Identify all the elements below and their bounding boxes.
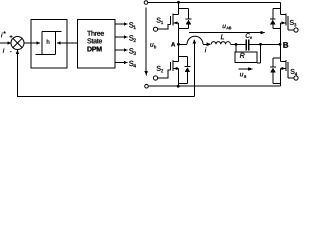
wire feedback from summer to current sensor — [18, 50, 195, 97]
node S4 output label — [129, 61, 136, 68]
diode D2 — [179, 57, 191, 84]
wire load left connector — [235, 44, 237, 52]
DPM block U1 — [78, 20, 116, 69]
node S2 output label — [129, 35, 136, 42]
node i feedback label — [3, 48, 4, 53]
node u_AB label — [223, 25, 232, 30]
node A junction — [177, 43, 180, 46]
transistor Q3 top-right MOSFET — [281, 2, 294, 44]
terminal gate S4 — [294, 76, 298, 80]
wire current arrowhead i — [207, 43, 212, 47]
voltage arrow u_a — [238, 67, 253, 70]
wire arrowhead into summer — [7, 41, 11, 44]
minus sign — [10, 0, 11, 103]
wire hysteresis to DPM — [67, 42, 78, 44]
node B junction — [279, 43, 282, 46]
terminal source plus — [144, 1, 148, 5]
node junction load left — [235, 43, 238, 46]
node S1 output label — [129, 22, 136, 29]
node S1 gate label — [157, 18, 163, 24]
transistor Q2 bottom-left MOSFET — [158, 44, 179, 86]
terminal gate S2 — [153, 76, 157, 80]
inductor L — [211, 42, 230, 45]
node i current label — [205, 47, 206, 52]
voltage arrow u_AB — [189, 31, 266, 34]
wire capacitor to node B — [249, 43, 281, 45]
node junction load right — [259, 43, 262, 46]
node S3 output label — [129, 48, 136, 55]
voltage arrow u_b — [145, 8, 148, 77]
wire feedback arrowhead into summer — [16, 50, 19, 54]
node S4 gate label — [291, 69, 298, 75]
hysteresis relay symbol — [32, 32, 68, 55]
wire node A to hop — [179, 43, 188, 45]
resistor R load box — [235, 52, 257, 63]
wire hop to inductor — [203, 43, 208, 45]
wire current sensor tap — [193, 40, 195, 97]
wire inductor to capacitor — [230, 43, 245, 45]
transistor Q4 bottom-right MOSFET — [281, 44, 294, 86]
wire crossover hop — [187, 36, 203, 44]
wire sensor arrowhead up — [193, 39, 196, 43]
wire summer to hysteresis block — [24, 42, 31, 44]
diode D3 — [270, 9, 281, 29]
hysteresis block H1 — [31, 19, 67, 68]
capacitor C — [246, 40, 248, 51]
terminal gate S3 — [294, 28, 298, 32]
wire output S1 — [115, 22, 128, 25]
node B label — [283, 42, 288, 48]
node A label — [171, 42, 175, 46]
diode D4 — [270, 58, 280, 83]
node u_a label — [240, 73, 246, 78]
node junction bottom rail left leg — [177, 85, 180, 88]
terminal source minus — [145, 84, 149, 88]
wire load right connector — [257, 44, 261, 63]
node u_b label — [150, 43, 156, 48]
node S2 gate label — [157, 66, 163, 72]
terminal gate S1 — [153, 27, 157, 31]
wire output S3 — [115, 48, 128, 51]
summing junction — [11, 37, 24, 50]
node R label — [240, 53, 245, 58]
node i* reference label — [1, 31, 6, 37]
wire top rail — [148, 1, 281, 3]
node L label — [221, 34, 224, 39]
node C label — [246, 33, 252, 38]
wire output S4 — [115, 61, 128, 64]
node S3 gate label — [290, 20, 296, 26]
plus sign — [10, 35, 13, 38]
node junction top rail left leg — [177, 1, 180, 4]
DPM block text — [87, 31, 104, 52]
wire bottom rail — [148, 85, 280, 87]
transistor Q1 top-left MOSFET — [158, 2, 179, 44]
diode D1 — [179, 8, 192, 28]
wire output S2 — [115, 35, 128, 38]
wire input to summer — [0, 42, 8, 44]
